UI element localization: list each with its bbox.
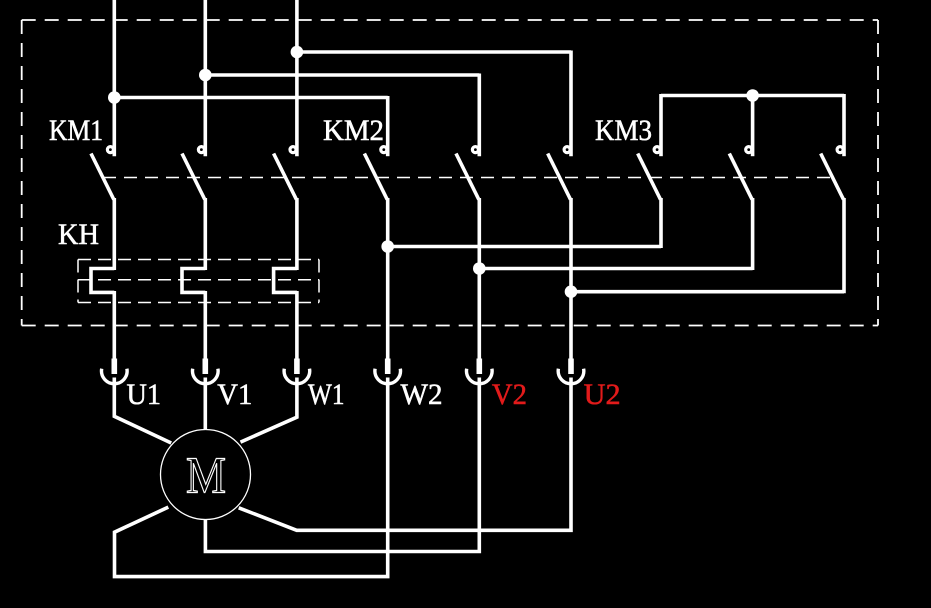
terminal U2 socket xyxy=(558,369,584,384)
node junction L1 xyxy=(108,91,121,104)
svg-text:U1: U1 xyxy=(127,378,162,411)
wire U2 return to motor xyxy=(239,378,571,531)
wire KM1 pole2 to KH heater 2 xyxy=(204,198,208,270)
wire L1 feed to KM2 pole1 xyxy=(114,96,387,100)
mechanical link dashed line KM contacts xyxy=(103,177,833,179)
node junction L2 xyxy=(199,69,212,82)
relay KH heater phase 1 xyxy=(91,269,114,293)
wire V1 to motor xyxy=(204,378,208,431)
node junction W2 link xyxy=(381,240,394,253)
wire V2 return to motor xyxy=(205,378,479,552)
terminal W2 socket xyxy=(375,369,401,384)
wire KM2 pole3 down to U2 terminal xyxy=(569,198,573,360)
svg-text:V1: V1 xyxy=(217,378,252,411)
terminal U1 socket xyxy=(102,369,128,384)
svg-text:U2: U2 xyxy=(584,378,621,411)
wire link KM2p2-KM3p2 xyxy=(479,267,752,271)
wire link KM2p1-KM3p1 xyxy=(388,245,661,249)
wire KM3 pole3 drop xyxy=(842,198,846,293)
contact KM2 pole1 xyxy=(364,147,387,200)
svg-text:KM3: KM3 xyxy=(595,114,652,147)
wire KM2 pole2 down to V2 terminal xyxy=(477,198,481,360)
wire L3 feed to KM2 pole3 xyxy=(297,50,571,54)
contact KM1 pole3 xyxy=(274,147,297,200)
node junction L3 xyxy=(291,46,304,59)
svg-text:KH: KH xyxy=(58,218,99,251)
wire W1 to motor xyxy=(241,378,297,443)
wire L2 supply drop xyxy=(204,0,208,156)
contact KM3 pole1 xyxy=(638,147,661,200)
wire KM3 star bus xyxy=(661,94,844,98)
wire KM1 pole3 to KH heater 3 xyxy=(295,198,299,270)
wire L1 supply drop xyxy=(113,0,117,156)
node junction U2 link xyxy=(565,285,578,298)
wire L3 supply drop xyxy=(295,0,299,156)
terminal W1 socket xyxy=(284,369,310,384)
svg-text:V2: V2 xyxy=(492,378,527,411)
svg-text:W2: W2 xyxy=(401,378,443,411)
wire link KM2p3-KM3p3 xyxy=(571,290,844,294)
contact KM1 pole1 xyxy=(91,147,114,200)
wire KH heater 1 to terminal U1 xyxy=(113,291,117,360)
contact KM3 pole2 xyxy=(729,147,752,200)
wire W2 return to motor xyxy=(115,378,388,577)
svg-text:KM2: KM2 xyxy=(323,114,384,147)
svg-text:M: M xyxy=(186,447,226,504)
svg-text:KM1: KM1 xyxy=(49,114,103,147)
wire KM3 middle drop xyxy=(751,96,755,157)
motor M circle xyxy=(161,430,251,520)
wire KM3 pole1 drop xyxy=(659,198,663,248)
contact KM2 pole3 xyxy=(548,147,571,200)
relay KH heater phase 2 xyxy=(182,269,205,293)
enclosure dashed border box xyxy=(22,19,878,21)
wire KM2 pole1 down to W2 terminal xyxy=(386,198,390,360)
relay KH heater phase 3 xyxy=(274,269,297,293)
wire KH heater 3 to terminal W1 xyxy=(295,291,299,360)
wire KM1 pole1 to KH heater 1 xyxy=(113,198,117,270)
contact KM1 pole2 xyxy=(182,147,205,200)
node star junction xyxy=(746,89,759,102)
svg-text:W1: W1 xyxy=(308,378,345,411)
wire U1 to motor xyxy=(114,378,171,444)
contact KM2 pole2 xyxy=(456,147,479,200)
relay KH dashed enclosure xyxy=(78,259,319,261)
contact KM3 pole3 xyxy=(821,147,844,200)
terminal V1 socket xyxy=(192,369,218,384)
terminal V2 socket xyxy=(467,369,493,384)
node junction V2 link xyxy=(473,262,486,275)
relay KH mechanical dashed line xyxy=(78,279,319,281)
wire KH heater 2 to terminal V1 xyxy=(204,291,208,360)
wire KM3 pole2 drop xyxy=(751,198,755,270)
wire L2 feed to KM2 pole2 xyxy=(205,73,479,77)
